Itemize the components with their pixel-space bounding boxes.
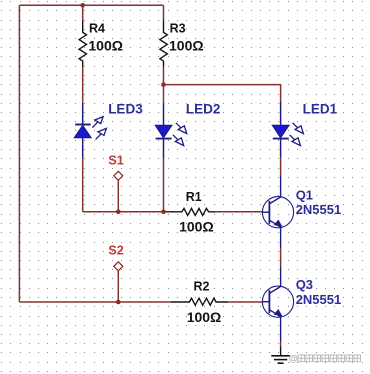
resistor R2 (171, 298, 228, 305)
resistor R1 (166, 208, 216, 215)
label R4 (89, 22, 105, 36)
svg-text:R4: R4 (89, 22, 105, 36)
svg-text:2N5551: 2N5551 (296, 202, 342, 217)
junction at R3 bottom / LED1 branch (161, 82, 166, 87)
node S2 diamond (114, 262, 123, 271)
wire: R1 to Q1 base (216, 211, 263, 213)
wire: row1 bus LED3 corner to R1 (83, 211, 166, 213)
svg-text:100Ω: 100Ω (187, 309, 222, 325)
LED3 (74, 102, 106, 157)
wire: R2 to Q3 base (228, 301, 262, 303)
svg-text:Q1: Q1 (296, 187, 313, 202)
wire: Q3 emitter to ground (280, 342, 282, 347)
wire: Q1 emitter to Q3 collector (280, 249, 282, 266)
junction LED2 on row1 (161, 210, 166, 215)
value label R3 100Ω (169, 37, 204, 53)
resistor R3 (160, 21, 167, 68)
svg-text:LED3: LED3 (108, 101, 143, 116)
label Q3 (296, 277, 313, 292)
label LED1 (303, 101, 338, 116)
label S2 (108, 243, 123, 257)
wire: R4 to LED3 (82, 67, 84, 102)
wire: R4 top stub (82, 5, 84, 20)
wire: LED1 to Q1 collector (280, 158, 282, 176)
node S1 diamond (114, 171, 123, 180)
wire: LED2 to row1 junction (163, 158, 165, 212)
label R2 (194, 280, 210, 294)
svg-text:100Ω: 100Ω (88, 37, 123, 53)
value label Q3 2N5551 (296, 292, 342, 307)
value label R2 100Ω (187, 309, 222, 325)
wire: branch to LED1 (164, 85, 281, 102)
value label R1 100Ω (179, 219, 214, 235)
svg-text:100Ω: 100Ω (169, 37, 204, 53)
svg-text:R2: R2 (194, 280, 210, 294)
junction at R4 top (80, 3, 85, 8)
value label Q1 2N5551 (296, 202, 342, 217)
transistor Q1 (262, 176, 293, 249)
wire: LED3 to S1 row (82, 158, 84, 212)
svg-text:@: @ (289, 354, 298, 365)
LED2 (155, 103, 187, 158)
svg-text:S2: S2 (108, 243, 123, 257)
svg-text:100Ω: 100Ω (179, 219, 214, 235)
svg-text:S1: S1 (108, 153, 123, 167)
label Q1 (296, 187, 313, 202)
svg-text:2N5551: 2N5551 (296, 292, 342, 307)
wire: bottom bus from left rail to R2 (19, 301, 171, 303)
wire: S1 to row1 (117, 180, 119, 212)
wire: top bus from left rail to R3 branch (19, 4, 163, 6)
junction S1 on row1 (116, 210, 121, 215)
value label R4 100Ω (88, 37, 123, 53)
wire: R3 to LED2 (163, 67, 165, 103)
junction S2 on bottom bus (116, 300, 121, 305)
svg-text:LED2: LED2 (186, 101, 221, 116)
label R1 (186, 190, 202, 204)
label S1 (108, 153, 123, 167)
wire: R3 top stub (163, 5, 165, 20)
LED1 (272, 102, 303, 158)
ground (271, 347, 290, 364)
watermark (289, 354, 361, 365)
svg-text:R1: R1 (186, 190, 202, 204)
label R3 (170, 22, 186, 36)
svg-text:R3: R3 (170, 22, 186, 36)
resistor R4 (79, 21, 86, 68)
wire: S2 to bottom bus (117, 271, 119, 302)
label LED3 (108, 101, 143, 116)
svg-text:Q3: Q3 (296, 277, 313, 292)
label LED2 (186, 101, 221, 116)
svg-text:LED1: LED1 (303, 101, 338, 116)
wire: left rail vertical (18, 5, 20, 302)
transistor Q3 (262, 266, 293, 341)
